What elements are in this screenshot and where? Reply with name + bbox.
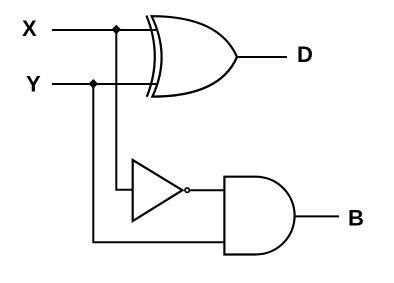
XOR gate U1 body [152, 16, 237, 96]
wire AND output to B [295, 215, 339, 217]
node junction on Y wire [89, 79, 99, 89]
svg-text:Y: Y [26, 72, 41, 97]
wire Y branch to AND gate [93, 84, 224, 242]
wire X input [52, 29, 156, 31]
svg-text:X: X [22, 16, 37, 41]
wire Y input [52, 83, 156, 85]
wire XOR output to D [237, 56, 287, 58]
svg-text:B: B [348, 205, 364, 230]
AND gate U2 [224, 177, 294, 255]
XOR gate U1 leading input arc [146, 16, 154, 97]
inverter NOT gate bubble [185, 188, 189, 192]
inverter NOT gate triangle [133, 160, 183, 221]
wire X branch to NOT gate [116, 30, 133, 190]
svg-text:D: D [297, 42, 313, 67]
wire NOT output to AND input [190, 189, 224, 191]
node junction on X wire [112, 25, 122, 35]
